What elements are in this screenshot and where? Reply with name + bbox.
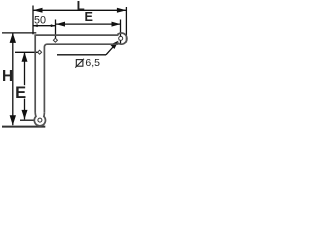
50 right arrowhead [51, 24, 56, 27]
H down arrowhead [10, 115, 16, 125]
first hole tick [55, 20, 57, 39]
svg-text:L: L [77, 0, 85, 13]
svg-text:6,5: 6,5 [85, 57, 100, 69]
square symbol [75, 59, 84, 68]
bottom cap [34, 113, 45, 126]
svg-text:E: E [84, 10, 92, 24]
E dim line vertical [24, 52, 26, 119]
labels [2, 0, 100, 102]
E left arrowhead [56, 22, 65, 27]
end hole right [119, 36, 123, 40]
white mask for E left label [16, 85, 26, 98]
H top extension [2, 32, 36, 34]
H up arrowhead [10, 33, 16, 43]
50 left arrowhead [33, 24, 38, 27]
L right arrowhead [117, 8, 127, 13]
outer edge [35, 35, 117, 113]
L left extension [32, 6, 34, 35]
inner edge with fillet [44, 44, 117, 113]
end hole bottom [38, 118, 42, 122]
svg-text:50: 50 [34, 15, 46, 27]
L dim line [33, 9, 126, 11]
leader diagonal [106, 42, 118, 55]
svg-text:E: E [15, 84, 26, 102]
leader horizontal [57, 54, 106, 56]
E dim line [56, 23, 121, 25]
E bottom extension [20, 119, 34, 121]
square hole 1 (diamond) [53, 38, 57, 42]
E right arrowhead [112, 22, 121, 27]
E down arrowhead [22, 110, 28, 120]
E right extension [120, 20, 122, 44]
holes [38, 36, 123, 122]
50 dim line [33, 25, 56, 27]
square hole 2 (diamond) [38, 50, 42, 54]
svg-text:H: H [2, 68, 13, 85]
H dim line [12, 33, 14, 125]
E top extension [15, 51, 38, 53]
right cap [118, 33, 127, 44]
E up arrowhead [22, 52, 28, 62]
part outline [34, 33, 127, 126]
L left arrowhead [33, 8, 43, 13]
H bottom baseline [2, 126, 45, 128]
leader arrowhead [110, 41, 119, 50]
L right extension [125, 7, 127, 43]
